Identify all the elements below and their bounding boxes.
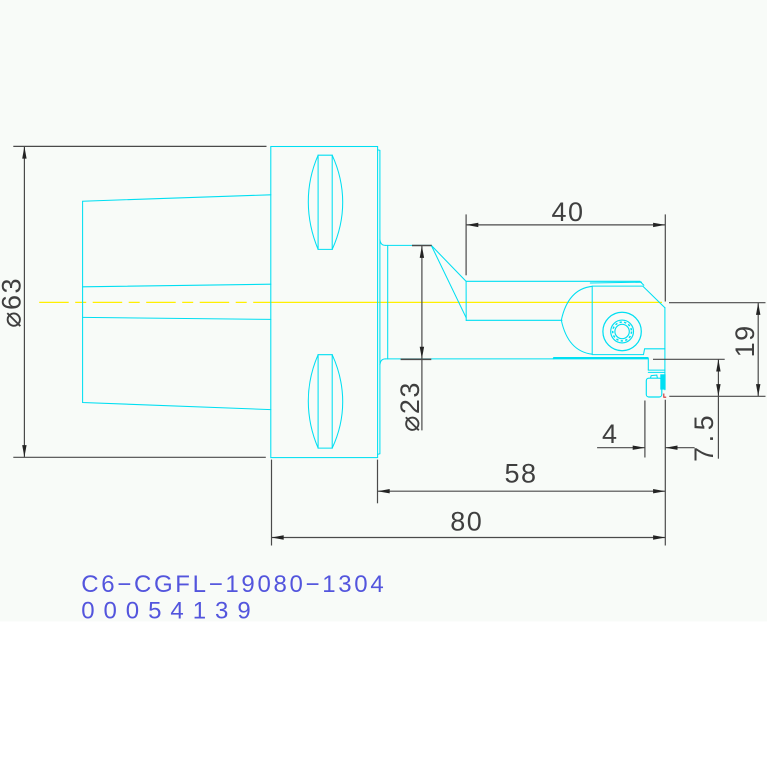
dim7.5 top extension line [653, 358, 725, 360]
centerline (yellow, solid right portion) [268, 301, 662, 303]
dia63 bottom extension line [13, 456, 265, 458]
dim58 dimension line [378, 490, 666, 492]
dim58 left extension line [377, 460, 379, 504]
neck end seam [387, 245, 389, 359]
screw head circle [611, 320, 634, 343]
bottom support line thick segment [554, 357, 648, 359]
screw outer circle [603, 312, 641, 350]
dim80 right arrow [653, 535, 665, 539]
centerline (yellow, dashed left portion) [39, 301, 268, 303]
cone transition diagonal upper [431, 245, 466, 281]
screw spline ring [613, 322, 632, 341]
cone transition diagonal lower [431, 245, 466, 317]
neck top edge [385, 244, 431, 246]
svg-text:4: 4 [602, 419, 619, 449]
cone inner line upper [83, 284, 271, 287]
neck bottom fillet [380, 359, 386, 365]
insert pad solid fill [660, 374, 665, 389]
dia23 top arrow [420, 246, 424, 258]
dim4 right extension line [664, 400, 666, 546]
dim80 dimension line [272, 537, 666, 539]
svg-text:7.5: 7.5 [689, 411, 719, 462]
taper cone outline [83, 195, 271, 410]
dim19 bottom extension line [669, 395, 765, 397]
dia63 top extension line [13, 145, 266, 147]
flange back edge line [378, 150, 380, 454]
head top edge and right chamfer [592, 286, 665, 308]
dim7.5 top arrow [716, 359, 720, 371]
dim58 right arrow [653, 489, 665, 493]
dim19 dimension line [757, 303, 759, 397]
dim7.5 dimension line [717, 359, 719, 458]
dim40 dimension line [466, 224, 665, 226]
dim58 left arrow [378, 489, 390, 493]
dimension texts [0, 197, 760, 536]
bottom lens slot [318, 355, 332, 448]
dim19 bottom arrow [756, 384, 760, 396]
svg-text:40: 40 [551, 197, 584, 227]
red reference mark [664, 394, 666, 398]
dim40 right arrow [653, 223, 665, 227]
insert outline [646, 378, 662, 397]
blade top second line [590, 281, 641, 284]
dim7.5 bottom arrow [716, 384, 720, 396]
svg-text:19: 19 [730, 324, 760, 357]
dim19 top arrow [756, 303, 760, 315]
dim19 top extension line [669, 302, 766, 304]
top lens slot [318, 155, 332, 249]
clamp left edge [647, 359, 649, 370]
dim4 right tail [665, 447, 694, 449]
neck bottom edge / bottom support line [385, 358, 554, 360]
flange rectangle [271, 147, 378, 458]
dia63 top arrow [22, 146, 26, 158]
clamp lower edge 2 [648, 371, 665, 373]
dia63 dimension line [23, 146, 25, 457]
head left face [591, 287, 593, 354]
dia23 dimension line [421, 246, 423, 431]
screw hole [615, 324, 629, 338]
dim4 left tail [597, 447, 645, 449]
dim80 left extension line [271, 460, 273, 546]
dimension dark linework [13, 146, 765, 545]
dia63 bottom arrow [22, 445, 26, 457]
svg-text:⌀23: ⌀23 [395, 381, 425, 432]
head nose arc [561, 286, 592, 354]
dim4 left extension line [644, 401, 646, 458]
clamp lower edge 1 [648, 369, 665, 371]
dia23 bottom extension tick [401, 358, 432, 360]
cone inner line lower [83, 317, 271, 319]
dim80 left arrow [272, 535, 284, 539]
svg-text:58: 58 [504, 458, 537, 488]
dim40 left extension line [465, 214, 467, 275]
blade top edge [466, 281, 644, 285]
dia23 top extension tick [412, 245, 432, 247]
part number text [81, 571, 384, 625]
neck top fillet [380, 240, 386, 246]
dia23 bottom arrow [420, 347, 424, 359]
head bottom edge with insert notch [592, 349, 665, 355]
dim4 left arrow [633, 446, 645, 450]
insert clamp bump [650, 375, 657, 378]
arrowheads [22, 146, 760, 539]
svg-text:C6−CGFL−19080−1304: C6−CGFL−19080−1304 [81, 571, 384, 598]
blade left edge [465, 281, 467, 320]
svg-text:80: 80 [450, 506, 483, 536]
dim40 left arrow [466, 223, 478, 227]
blade bottom edge [466, 319, 562, 321]
svg-text:⌀63: ⌀63 [0, 277, 26, 328]
dim4 right arrow [665, 446, 677, 450]
head right edge [664, 308, 666, 390]
dim40 right extension line [664, 214, 666, 301]
